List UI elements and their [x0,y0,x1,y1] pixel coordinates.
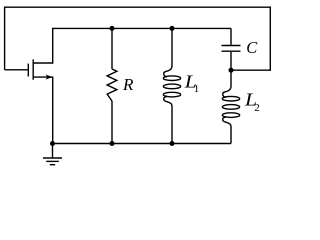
svg-text:2: 2 [254,102,260,114]
svg-text:R: R [122,75,134,94]
svg-text:1: 1 [194,83,200,95]
svg-text:C: C [246,38,258,57]
